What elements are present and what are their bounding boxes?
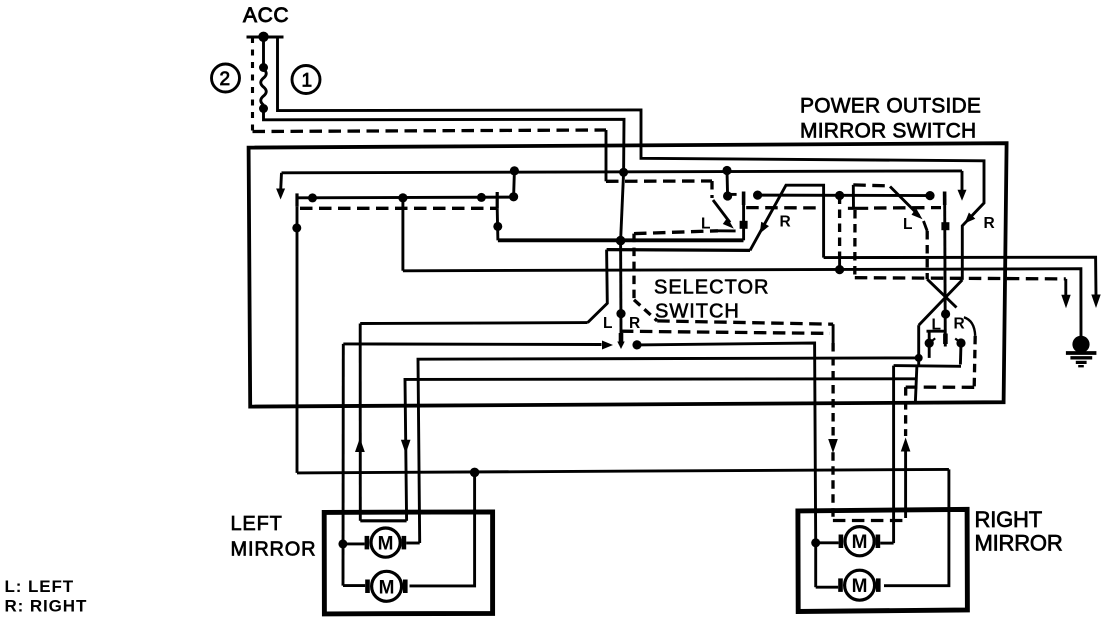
dashed drop x905 upper — [904, 387, 907, 436]
svg-text:L: L — [603, 315, 612, 332]
dashed selector R riser — [632, 234, 635, 300]
rail left blade drop — [279, 173, 283, 190]
LEFT MIRROR box — [324, 512, 492, 614]
selector common tip arrow — [617, 342, 624, 350]
dashed ground run y278 — [855, 278, 1066, 279]
dashed alternate row left switch — [300, 207, 497, 210]
solid stub x839 — [838, 258, 841, 270]
dashed selector R run to right mirror — [657, 321, 833, 324]
svg-text:2: 2 — [220, 69, 231, 90]
arrow up on wire B — [355, 438, 365, 452]
dashed selector R diagonal — [634, 300, 657, 321]
dashed drop x975 — [974, 336, 975, 388]
dashed run y387 — [906, 385, 975, 388]
terminal dot contact row x513 — [509, 192, 518, 201]
terminal dot selector common — [616, 309, 625, 318]
arrow down on dashed drop — [828, 439, 838, 453]
wire 1 solid from ACC down and right into switch — [278, 37, 985, 280]
mirror switch left half L blade solid — [713, 200, 730, 223]
junction dot x297 y228 — [292, 223, 301, 232]
left selector pole blade wire y250 — [607, 248, 750, 252]
arrow down ground side solid — [1091, 295, 1100, 309]
ground symbol body dome — [1072, 336, 1089, 353]
terminal dot x757 — [753, 191, 762, 200]
wire dashed drop to L contact of mirror switch left half — [710, 181, 713, 198]
ground run wire y268 — [403, 269, 1081, 339]
junction dot x839 ground wire — [835, 265, 844, 274]
dashed alternate row left half — [746, 206, 816, 210]
wire dashed ACC run to switch — [253, 130, 607, 132]
drop bus to right mirror motor2 — [884, 469, 949, 585]
arrow down at rail right end — [958, 190, 967, 201]
arrow down ground side dashed — [1061, 295, 1070, 309]
right selector crossing blade from switch L — [927, 279, 956, 307]
svg-text:M: M — [852, 532, 868, 553]
wire to M1 left terminal — [343, 542, 365, 545]
dashed riser from switch L blade — [926, 231, 929, 279]
terminal dot x930 — [925, 191, 934, 200]
arrow right at selector L contact — [602, 341, 613, 350]
svg-text:R: R — [984, 215, 995, 232]
common bus wire y470 — [297, 469, 949, 473]
node ACC terminal tick — [247, 36, 284, 39]
svg-text:L: L — [903, 216, 912, 233]
rail right end drop — [961, 171, 964, 190]
svg-text:LEFT: LEFT — [231, 513, 283, 535]
dashed jog from y240 node to L arrow — [634, 231, 718, 234]
selector common wire down — [619, 241, 622, 335]
tail on R contact — [955, 339, 961, 344]
center contact pad right half — [941, 222, 949, 230]
circuit number 2 symbol — [212, 64, 240, 92]
dot on right selector common — [941, 309, 950, 318]
supply rail inside box — [282, 171, 963, 173]
wire y322 to left mirror — [360, 321, 587, 325]
wire to M2 left terminal — [343, 584, 365, 587]
svg-text:M: M — [852, 576, 868, 597]
svg-text:SELECTOR: SELECTOR — [654, 277, 769, 299]
wire A down to left mirror — [342, 344, 345, 586]
wire 2 coil segment upper dot — [259, 63, 268, 72]
dashed hook right selector — [964, 317, 975, 336]
pivot dot of left-half L blade — [723, 191, 732, 200]
svg-text:SWITCH: SWITCH — [655, 301, 740, 323]
wire dashed ACC vertical drop into box — [605, 130, 608, 181]
right half L contact bar — [848, 207, 868, 210]
dashed alternate row right half — [874, 206, 941, 210]
terminal dot x497 y226 — [493, 222, 502, 231]
dashed bracket in right mirror — [833, 519, 905, 522]
svg-text:L: L — [932, 317, 941, 334]
stub vertical x916 — [915, 366, 917, 404]
wire from selector R contact to right mirror motors — [637, 343, 816, 543]
arrow on L blade — [723, 218, 734, 229]
wire down from bar x297 — [296, 207, 299, 473]
tick right of pivot — [731, 193, 737, 196]
wire B down to left mirror bracket — [359, 324, 362, 521]
wire D from left mirror bracket across — [405, 379, 916, 521]
solid bit under L arrow — [718, 229, 736, 232]
arrow up on x905 — [901, 438, 911, 452]
terminal dot x481 — [477, 193, 486, 202]
junction dot right selector foot — [915, 354, 923, 362]
terminal dot x312 — [308, 193, 317, 202]
wire to right M1 left terminal — [816, 541, 839, 544]
svg-text:ACC: ACC — [243, 4, 289, 27]
right selector crossing blade from switch R — [919, 280, 963, 325]
svg-text:M: M — [378, 534, 394, 555]
junction dot x403 — [398, 193, 407, 202]
wire to right M2 left terminal — [816, 586, 839, 589]
right selector L contact stem — [928, 331, 931, 343]
drop from R contact to y365 wire — [959, 343, 962, 365]
svg-text:R: R — [954, 316, 965, 333]
contact bar x297 — [295, 193, 298, 206]
svg-text:1: 1 — [302, 71, 313, 92]
center contact bar left half — [742, 192, 746, 206]
ground bar 2 — [1070, 356, 1092, 359]
hat riser — [852, 185, 855, 208]
wire y257 to ground arrow — [824, 257, 1096, 296]
junction dot motor feed right — [811, 538, 820, 547]
dashed common alternate run — [621, 331, 830, 333]
wire y195 between switch halves — [758, 194, 930, 197]
drop from rail to contact row — [512, 171, 516, 197]
mirror switch left half R blade — [750, 185, 824, 257]
wire down from bar x497 — [496, 208, 500, 240]
svg-text:MIRROR: MIRROR — [975, 531, 1063, 556]
svg-text:POWER OUTSIDE: POWER OUTSIDE — [800, 95, 981, 118]
motor M1 right mirror — [839, 527, 881, 556]
wire y365 under right selector — [894, 364, 961, 368]
mirror switch right half dashed hat — [853, 185, 890, 186]
junction dot bus — [470, 468, 480, 478]
contact bar x497 — [496, 192, 499, 208]
wire M1 right terminal up (wire C stub) — [406, 542, 420, 545]
ground bar 4 — [1078, 365, 1084, 367]
wire 2 dashed vertical from ACC — [251, 37, 254, 132]
arrow on R blade — [760, 222, 769, 234]
svg-text:MIRROR: MIRROR — [231, 539, 317, 561]
right selector R contact dot — [956, 338, 965, 347]
motor M2 left mirror — [365, 571, 407, 601]
junction dot at ACC — [258, 32, 268, 42]
svg-text:R: R — [629, 315, 640, 332]
svg-text:MIRROR SWITCH: MIRROR SWITCH — [800, 120, 976, 143]
svg-text:L: LEFT: L: LEFT — [5, 577, 75, 596]
right selector common bar — [943, 334, 948, 345]
dashed ground drop — [1064, 279, 1067, 296]
junction dot rail x623 — [619, 168, 628, 177]
drop from L contact to wire C — [928, 343, 931, 358]
junction dot rail x727 — [722, 166, 731, 175]
junction dot y240 node — [616, 236, 626, 246]
drop x905 into right mirror bracket — [904, 449, 907, 518]
junction dot x839 — [835, 191, 844, 200]
wire rail to y240 node — [621, 172, 624, 240]
right selector L contact dot — [925, 339, 934, 348]
RIGHT MIRROR box — [798, 509, 968, 611]
dashed drop x839 to ground wire — [838, 196, 841, 258]
coil squiggle on wire 2 — [261, 69, 267, 105]
wire 2 run to switch — [264, 109, 625, 173]
selector L contact wire with arrow — [343, 342, 601, 346]
junction dot rail x514 — [510, 166, 519, 175]
svg-text:R: RIGHT: R: RIGHT — [5, 597, 88, 616]
dashed drop lower part — [831, 452, 834, 517]
ground bar 3 — [1076, 361, 1087, 364]
svg-text:RIGHT: RIGHT — [975, 507, 1042, 532]
feed wire y240 to switch centers — [498, 238, 744, 242]
blade tail to riser — [924, 221, 928, 231]
POWER OUTSIDE MIRROR SWITCH box — [249, 143, 1007, 406]
wire 2 coil segment lower dot — [259, 104, 268, 113]
arrow on right half L blade — [912, 208, 923, 219]
ground bar 1 — [1066, 351, 1097, 355]
tail on L contact — [929, 338, 935, 343]
svg-text:R: R — [780, 214, 791, 231]
selector common contact bar — [619, 333, 624, 345]
contact row wire — [297, 196, 514, 200]
dashed drop x855 — [853, 210, 857, 278]
left selector pole blade — [588, 250, 608, 323]
arrow on switch right half R blade — [965, 213, 976, 224]
junction dot motor feed left — [338, 539, 347, 548]
feed down to right M2 — [814, 543, 817, 587]
svg-text:M: M — [379, 577, 395, 598]
wire C from left mirror up across to right selector — [418, 358, 919, 543]
wire 2 lead from ACC dot — [262, 37, 265, 68]
arrow down on wire D — [401, 440, 411, 454]
right selector vertical x918 — [917, 325, 920, 365]
motor M1 left mirror — [365, 528, 407, 557]
circuit number 1 symbol — [292, 66, 320, 94]
right half L blade — [890, 187, 919, 216]
right selector L contact shelf — [927, 330, 945, 333]
right selector common vertical — [943, 192, 947, 206]
wire down from dot x403 to ground run — [401, 198, 404, 271]
dashed drop to right mirror bracket — [832, 324, 835, 343]
pivot drop from rail to L blade pivot — [726, 171, 729, 197]
bracket in left mirror — [360, 519, 406, 522]
wire right M1 right terminal — [880, 542, 893, 545]
drop bus to left mirror motor2 — [410, 472, 475, 586]
wire dashed ACC horizontal inside box — [606, 179, 712, 183]
wire down to right mirror motor1 — [892, 366, 895, 543]
arrow down at left blade — [276, 189, 285, 200]
selector R contact dot — [632, 340, 641, 349]
motor M2 right mirror — [838, 570, 880, 600]
center contact pad left half — [740, 221, 748, 229]
